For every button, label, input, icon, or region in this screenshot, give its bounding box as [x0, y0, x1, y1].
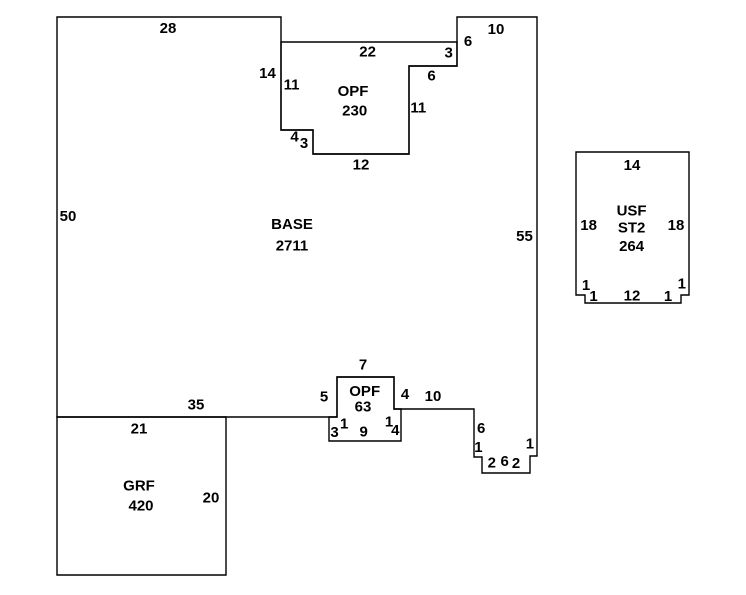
dimension 4 (OPF63 right notch vert) — [391, 422, 400, 439]
dimension 3 (OPF63 left notch vert) — [330, 424, 338, 441]
svg-text:18: 18 — [668, 217, 685, 234]
svg-text:1: 1 — [678, 276, 686, 293]
dimension 2 (BASE step vert) — [488, 455, 496, 472]
svg-text:6: 6 — [501, 453, 509, 470]
label OPF (230) — [338, 83, 369, 100]
svg-text:9: 9 — [360, 424, 368, 441]
svg-text:1: 1 — [474, 439, 482, 456]
svg-text:3: 3 — [330, 424, 338, 441]
dimension 14 (BASE vertical x281) — [259, 65, 276, 82]
dimension 12 (USF bottom) — [624, 287, 641, 304]
svg-text:OPF: OPF — [338, 83, 369, 100]
svg-text:28: 28 — [160, 20, 177, 37]
svg-text:GRF: GRF — [123, 478, 155, 495]
dimension 1 (USF bottom-left vert) — [589, 288, 597, 305]
dimension 1 (USF bottom-right vert) — [664, 288, 672, 305]
dimension 55 (BASE right) — [516, 228, 533, 245]
svg-text:22: 22 — [359, 44, 376, 61]
svg-text:50: 50 — [60, 208, 77, 225]
svg-text:21: 21 — [131, 421, 148, 438]
svg-text:20: 20 — [203, 490, 220, 507]
dimension 18 (USF left) — [580, 217, 597, 234]
label GRF — [123, 478, 155, 495]
svg-text:6: 6 — [477, 420, 485, 437]
svg-text:1: 1 — [340, 416, 348, 433]
dimension 6 (BASE step bottom) — [501, 453, 509, 470]
svg-text:OPF: OPF — [349, 383, 380, 400]
dimension 6 (OPF230 bottom-right step) — [427, 67, 435, 84]
svg-text:14: 14 — [259, 65, 276, 82]
dimension 10 (BASE top right) — [488, 21, 505, 38]
svg-text:ST2: ST2 — [618, 220, 646, 237]
dimension 12 (OPF230 bottom) — [353, 157, 370, 174]
label ST2 — [618, 220, 646, 237]
OPF 63 porch outline — [329, 377, 401, 441]
dimension 1 (USF bottom-right horiz) — [678, 276, 686, 293]
svg-text:18: 18 — [580, 217, 597, 234]
svg-text:1: 1 — [664, 288, 672, 305]
svg-text:264: 264 — [619, 238, 645, 255]
svg-text:2: 2 — [488, 455, 496, 472]
dimension 18 (USF right) — [668, 217, 685, 234]
svg-text:6: 6 — [464, 33, 472, 50]
area 420 — [128, 498, 153, 515]
dimension 21 (GRF top) — [131, 421, 148, 438]
dimension 6 (BASE vertical x457) — [464, 33, 472, 50]
svg-text:10: 10 — [425, 388, 442, 405]
USF ST2 264 outline — [576, 152, 689, 303]
dimension 7 (OPF63 top) — [359, 357, 367, 374]
svg-text:55: 55 — [516, 228, 533, 245]
dimension 1 (BASE step horiz right) — [526, 436, 534, 453]
svg-text:BASE: BASE — [271, 216, 313, 233]
svg-text:5: 5 — [320, 389, 328, 406]
svg-text:11: 11 — [284, 77, 300, 94]
OPF 230 porch outline — [281, 42, 457, 154]
area 264 — [619, 238, 645, 255]
dimension 11 (OPF230 left) — [284, 77, 300, 94]
svg-text:4: 4 — [391, 422, 400, 439]
svg-text:10: 10 — [488, 21, 505, 38]
svg-text:1: 1 — [589, 288, 597, 305]
svg-text:4: 4 — [401, 386, 410, 403]
svg-text:7: 7 — [359, 357, 367, 374]
dimension 4 (step) — [290, 129, 299, 146]
dimension 28 (BASE top) — [160, 20, 177, 37]
dimension 1 (USF bottom-left horiz) — [582, 277, 590, 294]
dimension 4 (OPF63 right) — [401, 386, 410, 403]
dimension 1 (OPF63 right notch horiz) — [385, 413, 393, 430]
dimension 5 (OPF63 left) — [320, 389, 328, 406]
svg-text:63: 63 — [355, 399, 372, 416]
label USF — [617, 203, 647, 220]
svg-text:2: 2 — [512, 455, 520, 472]
dimension 20 (GRF right) — [203, 490, 220, 507]
dimension 35 (BASE bottom left) — [188, 397, 205, 414]
dimension 10 (BASE bottom segment) — [425, 388, 442, 405]
dimension 11 (OPF230 right) — [410, 100, 426, 117]
dimension 2 (BASE step vert right) — [512, 455, 520, 472]
svg-text:2711: 2711 — [276, 238, 309, 255]
svg-text:12: 12 — [353, 157, 370, 174]
dimension 1 (OPF63 left notch horiz) — [340, 416, 348, 433]
dimension 22 (OPF230 top) — [359, 44, 376, 61]
svg-text:4: 4 — [290, 129, 299, 146]
dimension 3 (step) — [300, 135, 308, 152]
svg-text:420: 420 — [128, 498, 153, 515]
svg-text:11: 11 — [410, 100, 426, 117]
svg-text:6: 6 — [427, 67, 435, 84]
dimension 1 (BASE right step horiz) — [474, 439, 482, 456]
area 63 — [355, 399, 372, 416]
svg-text:230: 230 — [342, 103, 367, 120]
svg-text:1: 1 — [526, 436, 534, 453]
svg-text:14: 14 — [624, 157, 641, 174]
area 2711 — [276, 238, 309, 255]
dimension 50 (BASE left) — [60, 208, 77, 225]
svg-text:12: 12 — [624, 287, 641, 304]
svg-text:35: 35 — [188, 397, 205, 414]
label BASE — [271, 216, 313, 233]
dimension 9 (OPF63 bottom) — [360, 424, 368, 441]
svg-text:3: 3 — [300, 135, 308, 152]
dimension 14 (USF top) — [624, 157, 641, 174]
GRF 420 garage outline — [57, 417, 226, 575]
svg-text:USF: USF — [617, 203, 647, 220]
svg-text:3: 3 — [445, 45, 453, 62]
BASE footprint outline — [57, 17, 537, 473]
dimension 6 (BASE right step vert) — [477, 420, 485, 437]
area 230 — [342, 103, 367, 120]
dimension 3 (OPF230 right) — [445, 45, 453, 62]
label OPF (63) — [349, 383, 380, 400]
